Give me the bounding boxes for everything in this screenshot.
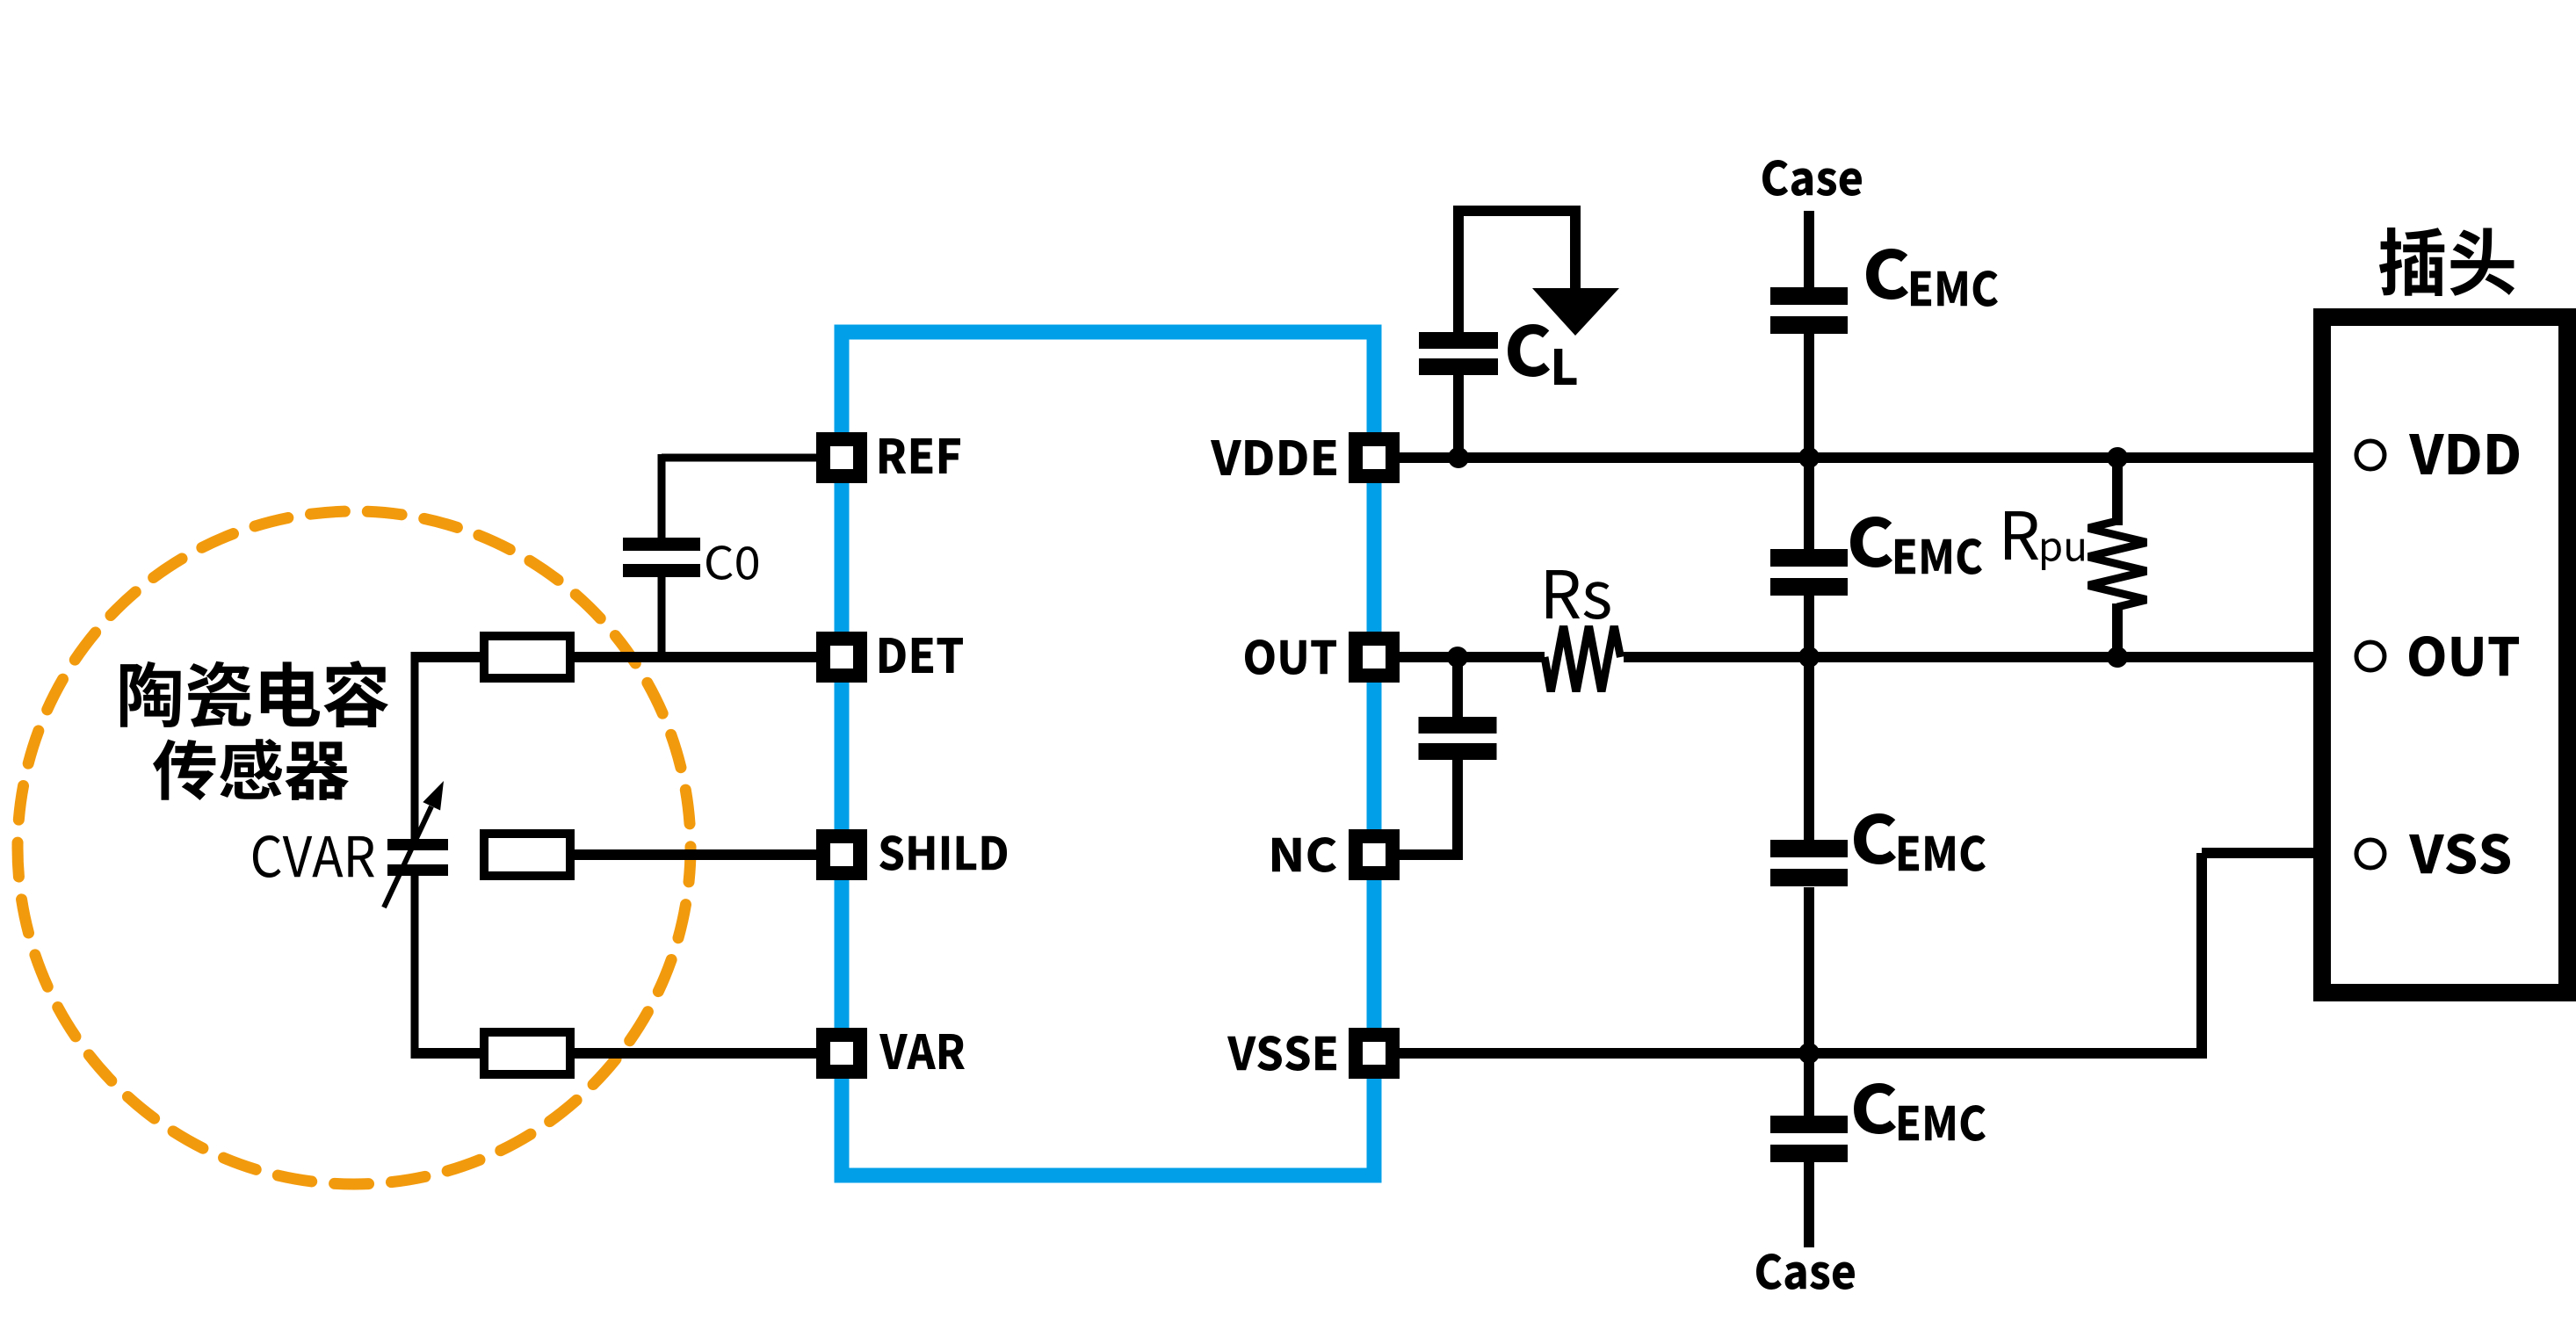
node: OUT/NC-cap junction [1447, 647, 1468, 668]
node: VDDE/CL junction [1448, 447, 1469, 468]
label pin VAR [879, 1034, 965, 1069]
label CEMC #1 [1866, 249, 1998, 307]
label CL [1508, 324, 1576, 385]
capacitor CEMC #3 [1770, 840, 1848, 857]
wire: CEMC1 to VDD net [1804, 334, 1814, 463]
wire: CEMC3 to VSSE net [1804, 887, 1814, 1059]
resistor Rpu [2088, 517, 2147, 611]
wire: OUT net left segment (OUT pin to Rs) [1400, 652, 1545, 662]
wire: NC capacitor upper lead [1452, 652, 1463, 717]
wire: C0 lower lead [658, 577, 666, 662]
capacitor C0 [623, 538, 700, 551]
sensor middle electrode terminal block [484, 834, 570, 876]
wire: NC capacitor lower lead [1452, 760, 1463, 860]
wire: sensor bus vertical upper segment [411, 652, 419, 839]
capacitor CEMC #4 [1770, 1116, 1848, 1133]
wire: CL lower lead [1453, 375, 1464, 463]
label pin REF [879, 438, 960, 473]
wire: Rpu upper lead [2112, 458, 2123, 525]
wire: VSSE net to CEMC4 [1804, 1053, 1814, 1117]
capacitor CEMC #2 [1770, 549, 1848, 567]
label pin SHILD [879, 835, 1007, 871]
label pin VDDE [1211, 440, 1336, 475]
node: OUT/CEMC junction [1798, 647, 1820, 668]
terminal VSS [2356, 840, 2384, 868]
label pin NC [1272, 837, 1336, 872]
wire: SHILD net from sensor middle electrode [527, 849, 816, 860]
capacitor CVAR (variable) [384, 781, 448, 907]
label: ceramic capacitive sensor line2 传感器 [153, 739, 349, 800]
sensor bottom electrode terminal block [484, 1032, 570, 1074]
arrow head (points to VDDE node) [1532, 288, 1619, 336]
connector plug body [2322, 317, 2567, 993]
wire: VSS net into plug [2202, 848, 2363, 858]
wire: Case bottom lead [1804, 1162, 1814, 1247]
pin NC [1349, 829, 1400, 880]
sensor top electrode terminal block [484, 636, 570, 678]
label CEMC #2 [1850, 517, 1982, 575]
label 插头 (plug) [2379, 228, 2514, 296]
pin VSSE [1349, 1028, 1400, 1079]
resistor Rs [1541, 625, 1624, 692]
wire: VAR net from sensor bottom electrode [415, 1048, 816, 1059]
wire: VSSE net horizontal [1400, 1048, 2207, 1059]
capacitor CL [1419, 332, 1498, 349]
wire: NC stub [1400, 849, 1458, 860]
label CEMC #3 [1854, 813, 1986, 871]
wire: VDD net to CEMC2 [1804, 458, 1814, 551]
pin REF [816, 432, 867, 483]
pin SHILD [816, 829, 867, 880]
terminal VDD [2356, 441, 2384, 469]
wire: C0 upper lead [658, 454, 666, 539]
node: VDD/CEMC junction [1798, 447, 1820, 468]
wire: DET net from sensor top electrode [415, 652, 816, 662]
wire: sensor bus vertical lower segment [411, 876, 419, 1059]
label C0 [706, 546, 758, 580]
label pin OUT [1245, 640, 1336, 675]
label Case (bottom) [1756, 1254, 1855, 1290]
node: VDD/Rpu junction [2107, 447, 2128, 468]
wire: VSS net vertical riser [2196, 853, 2207, 1059]
wire: OUT net right segment (Rs to plug) [1624, 652, 2363, 662]
label CEMC #4 [1854, 1083, 1986, 1141]
label: ceramic capacitive sensor line1 陶瓷电容 [120, 661, 388, 727]
label pin DET [879, 638, 963, 673]
pin OUT [1349, 632, 1400, 683]
capacitor CEMC #1 [1770, 287, 1848, 305]
terminal OUT [2356, 642, 2384, 670]
wire: CEMC2 to OUT net [1804, 596, 1814, 662]
label Rpu [2005, 511, 2084, 570]
label Case (top) [1762, 160, 1862, 196]
sensor boundary (orange dashed circle) [18, 511, 691, 1184]
label CVAR [253, 835, 374, 878]
wire: VDD net (VDDE to plug) [1400, 452, 2363, 463]
label pin VSSE [1227, 1036, 1336, 1071]
wire: CL top loop with arrow [1458, 211, 1575, 332]
label VDD [2409, 434, 2519, 474]
pin VAR [816, 1028, 867, 1079]
wire: Case top lead [1804, 211, 1814, 289]
node: VSSE/CEMC junction [1798, 1043, 1820, 1064]
wire: OUT net to CEMC3 [1804, 657, 1814, 842]
wire: Rpu lower lead [2112, 603, 2123, 657]
label OUT (plug) [2409, 636, 2519, 676]
label VSS [2409, 834, 2510, 874]
node: OUT/Rpu junction [2107, 647, 2128, 668]
pin VDDE [1349, 432, 1400, 483]
pin DET [816, 632, 867, 683]
wire: REF stub [662, 454, 816, 462]
IC U1 body (blue outline) [842, 332, 1374, 1175]
label Rs [1546, 570, 1610, 619]
capacitor (NC decoupling) [1419, 717, 1497, 734]
